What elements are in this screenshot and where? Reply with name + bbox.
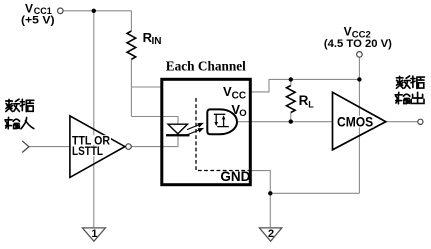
svg-text:1: 1 bbox=[91, 228, 97, 240]
svg-text:O: O bbox=[239, 108, 246, 119]
svg-text:R: R bbox=[299, 93, 309, 108]
svg-text:CMOS: CMOS bbox=[337, 113, 373, 129]
svg-text:GND: GND bbox=[220, 168, 250, 184]
svg-text:CC: CC bbox=[232, 90, 246, 101]
svg-text:(4.5 TO 20 V): (4.5 TO 20 V) bbox=[324, 38, 392, 50]
svg-text:L: L bbox=[308, 99, 314, 109]
svg-text:2: 2 bbox=[268, 228, 274, 240]
svg-text:IN: IN bbox=[152, 36, 162, 47]
svg-text:LSTTL: LSTTL bbox=[72, 144, 103, 158]
svg-text:Each Channel: Each Channel bbox=[166, 60, 246, 75]
svg-text:(+5 V): (+5 V) bbox=[21, 14, 55, 26]
svg-text:V: V bbox=[344, 25, 352, 39]
